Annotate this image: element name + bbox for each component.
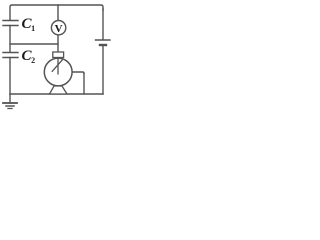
capacitor C1 xyxy=(3,21,18,26)
electroscope stand trapezoid xyxy=(50,86,68,94)
electroscope rod xyxy=(57,58,59,75)
wire left lower (C2 to bottom line) xyxy=(9,58,11,95)
electroscope needle xyxy=(52,60,63,72)
wire left between C1 and C2 xyxy=(9,26,11,53)
wire right branch vertical xyxy=(83,74,85,95)
battery cell short plate xyxy=(100,44,106,46)
wire bottom table line xyxy=(10,93,103,95)
electroscope body circle xyxy=(44,58,72,86)
svg-text:C1: C1 xyxy=(22,16,36,33)
svg-text:C2: C2 xyxy=(22,48,36,65)
wire voltmeter bottom lead to electroscope xyxy=(57,35,59,52)
wire right vertical lower xyxy=(102,45,104,94)
electroscope knob rectangle xyxy=(53,52,64,58)
svg-text:V: V xyxy=(55,23,63,35)
wire top horizontal with rounded corners xyxy=(10,5,103,20)
wire ground stub xyxy=(9,94,11,103)
capacitor C2 xyxy=(3,53,18,58)
wire electroscope right lead xyxy=(72,72,84,74)
wire right vertical upper xyxy=(102,9,104,40)
battery cell long plate xyxy=(96,39,111,41)
voltmeter U1 circle xyxy=(51,21,65,35)
wire middle horizontal (junction to voltmeter branch) xyxy=(10,43,58,45)
wire voltmeter top lead xyxy=(57,5,59,21)
ground xyxy=(3,102,17,104)
